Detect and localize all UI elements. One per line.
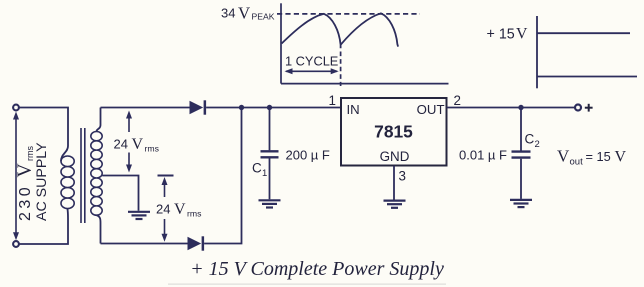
wire: D2 cathode to junction riser: [204, 108, 241, 244]
dc graph time axis: [537, 76, 637, 78]
wire: rail to C1: [269, 108, 271, 151]
wire: primary bottom to bottom terminal: [19, 208, 68, 244]
junction C1 tap: [267, 105, 272, 110]
svg-text:OUT: OUT: [417, 102, 445, 117]
svg-text:C: C: [525, 132, 535, 147]
label 230 Vrms (rotated): [15, 146, 36, 221]
junction C2 tap: [518, 105, 523, 110]
svg-text:V: V: [15, 163, 36, 177]
measurement arrow 24Vrms top: [126, 111, 132, 173]
label C2: [525, 132, 540, 151]
svg-text:V: V: [174, 201, 186, 218]
wire: secondary top to diode D1: [101, 107, 190, 109]
diode D2: [188, 236, 205, 250]
wire: secondary top lead: [97, 108, 101, 132]
wire: pin3 to ground: [393, 166, 395, 200]
label 24 Vrms (top): [114, 136, 160, 154]
svg-text:0.01 µ F: 0.01 µ F: [459, 147, 507, 162]
svg-text:+ 15 V Complete Power Supply: + 15 V Complete Power Supply: [190, 258, 444, 280]
capacitor C2: [512, 152, 531, 158]
measurement arrow 24Vrms bottom: [158, 176, 174, 242]
svg-text:= 15: = 15: [586, 149, 611, 164]
svg-text:rms: rms: [145, 144, 160, 154]
scan artifact line: [168, 283, 446, 285]
dashed vertical line at end of 1 cycle: [340, 52, 342, 87]
label 24 Vrms (bottom): [156, 201, 202, 219]
svg-text:24: 24: [156, 202, 170, 217]
svg-text:rms: rms: [187, 209, 202, 219]
wire: top terminal to primary: [19, 108, 68, 162]
svg-text:V: V: [615, 149, 627, 166]
svg-text:V: V: [516, 26, 528, 43]
label C1: [252, 161, 267, 180]
wire: secondary bottom to diode D2: [101, 243, 188, 245]
ripple waveform: [282, 13, 399, 48]
secondary winding: [91, 132, 102, 216]
ground (regulator): [384, 201, 406, 208]
dashed peak level line: [277, 13, 420, 15]
terminal bottom left: [13, 241, 19, 247]
waveform y-axis: [280, 3, 282, 83]
ground (C1): [259, 200, 281, 207]
label +: [585, 104, 593, 112]
ground (C2): [510, 200, 532, 207]
svg-text:PEAK: PEAK: [252, 12, 275, 22]
regulator box: [341, 98, 447, 166]
wire: OUT to output terminal: [447, 107, 576, 109]
svg-text:V: V: [132, 136, 144, 153]
diode D1: [190, 100, 207, 114]
wire: secondary bottom lead: [97, 215, 101, 243]
svg-text:24: 24: [114, 137, 128, 152]
wire: C1 to ground: [269, 158, 271, 199]
svg-text:1: 1: [262, 168, 267, 179]
svg-text:34: 34: [221, 5, 235, 20]
transformer core: [80, 128, 82, 223]
svg-text:C: C: [252, 161, 262, 176]
terminal top left: [13, 105, 19, 111]
svg-text:IN: IN: [347, 102, 360, 117]
svg-text:2: 2: [535, 139, 540, 150]
capacitor C1: [261, 151, 279, 157]
svg-text:1: 1: [329, 93, 336, 108]
svg-text:+ 15: + 15: [487, 26, 515, 42]
svg-text:AC SUPPLY: AC SUPPLY: [34, 142, 50, 221]
svg-text:3: 3: [399, 169, 406, 184]
junction rectifier output: [239, 105, 244, 110]
svg-text:2: 2: [454, 93, 461, 108]
svg-text:out: out: [570, 157, 584, 168]
svg-text:7815: 7815: [374, 122, 413, 142]
ground (center tap): [128, 212, 150, 219]
wire: rail to C2: [520, 108, 522, 151]
output terminal: [575, 105, 581, 111]
svg-text:230: 230: [17, 184, 34, 221]
wire: D1 cathode to IN rail: [206, 107, 341, 109]
waveform x-axis: [281, 83, 449, 85]
label Vout = 15 V: [557, 147, 627, 168]
1 cycle measurement arrow: [285, 68, 339, 74]
wire: center tap: [102, 176, 138, 211]
label 34 Vpeak: [221, 3, 275, 22]
label +15 V: [487, 26, 529, 43]
dc graph vertical axis: [536, 16, 538, 88]
primary winding: [61, 156, 74, 209]
wire: C2 to ground: [520, 159, 522, 199]
svg-text:V: V: [238, 3, 250, 22]
dc +15V level line: [537, 32, 630, 34]
svg-text:1 CYCLE: 1 CYCLE: [285, 53, 338, 68]
ac supply measurement arrow: [13, 112, 19, 241]
svg-text:GND: GND: [380, 149, 410, 164]
svg-text:200 µ F: 200 µ F: [286, 147, 330, 162]
svg-text:V: V: [557, 147, 570, 166]
